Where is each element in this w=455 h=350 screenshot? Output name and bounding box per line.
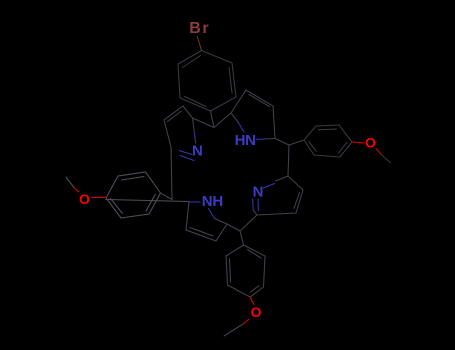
bond ring-O bottom <box>250 297 254 305</box>
svg-text:NH: NH <box>202 193 223 210</box>
pyrrole B N-H bonds blue <box>238 122 265 140</box>
svg-text:O: O <box>365 135 376 151</box>
bond O-methyl right <box>376 149 382 156</box>
bottom methoxyphenyl ring <box>226 245 265 297</box>
pyrrole C ring <box>186 202 240 242</box>
svg-text:O: O <box>251 304 262 320</box>
pyrrole C N-H bonds blue <box>189 202 215 219</box>
meso M1 bonds <box>193 113 232 128</box>
bond D1-M3 <box>288 145 289 176</box>
bromophenyl ring <box>178 51 236 112</box>
bond C4-M1 <box>211 111 215 128</box>
svg-text:N: N <box>253 184 264 201</box>
bond ring-O right <box>352 142 365 143</box>
pyrrole D N=C double bond blue <box>253 184 275 211</box>
right methoxyphenyl ring <box>304 125 352 157</box>
svg-text:N: N <box>192 142 203 159</box>
svg-text:O: O <box>79 191 90 207</box>
bond O-methyl left <box>74 188 79 193</box>
meso M3 bonds <box>275 139 289 146</box>
pyrrole A N bonds blue <box>179 133 196 161</box>
pyrrole B ring <box>231 90 275 139</box>
bond N4=C stub to D4 <box>253 211 257 216</box>
bond A1-M2 long vertical <box>171 147 172 199</box>
bond V4-M2 <box>161 193 173 200</box>
long bond chain V1 to N3 <box>106 200 189 202</box>
svg-text:Br: Br <box>189 20 210 37</box>
left methoxyphenyl ring <box>106 172 161 218</box>
pyrrole D ring <box>257 176 303 215</box>
bond C1-Br <box>197 37 201 51</box>
bond O-ring left <box>92 196 107 198</box>
svg-text:HN: HN <box>235 132 256 149</box>
meso M4 bonds <box>240 215 257 231</box>
pyrrole A ring <box>164 106 195 147</box>
bond O-methyl bottom <box>243 320 249 325</box>
